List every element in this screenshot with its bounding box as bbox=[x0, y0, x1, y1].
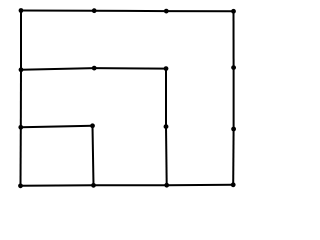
edge B2-B3 (second row right) bbox=[94, 67, 166, 70]
edge B4-C4 (right column middle) bbox=[233, 68, 235, 129]
node A1 bbox=[19, 8, 24, 13]
node C2 bbox=[90, 123, 95, 128]
node C3 bbox=[164, 124, 169, 129]
node D4 bbox=[231, 182, 236, 187]
node B2 bbox=[92, 66, 97, 71]
node B3 bbox=[164, 66, 169, 71]
node D3 bbox=[164, 183, 169, 188]
edge B3-C3 (inner column upper) bbox=[165, 69, 167, 127]
node A2 bbox=[92, 8, 97, 13]
edge A2-A3 (top row middle) bbox=[94, 10, 166, 12]
edge D1-D2 (bottom row left) bbox=[21, 184, 94, 187]
edge D3-D4 (bottom row right) bbox=[167, 184, 234, 186]
edge C2-D2 (small box right side) bbox=[93, 126, 94, 186]
edge C1-C2 (small box top) bbox=[21, 126, 93, 128]
node A3 bbox=[164, 9, 169, 14]
node D2 bbox=[91, 183, 96, 188]
edge A1-A2 (top row left) bbox=[21, 10, 94, 12]
edge C4-D4 (right column lower) bbox=[232, 129, 234, 185]
edge B1-C1 (left column middle) bbox=[20, 70, 22, 128]
node B4 bbox=[231, 65, 236, 70]
node C1 bbox=[18, 125, 23, 130]
edge A1-B1 (left column upper) bbox=[20, 11, 22, 70]
edge D2-D3 (bottom row middle) bbox=[94, 184, 167, 186]
edge A3-A4 (top row right) bbox=[166, 10, 233, 12]
node C4 bbox=[231, 127, 236, 132]
edge C3-D3 (inner column lower) bbox=[165, 127, 168, 186]
edge A4-B4 (right column upper) bbox=[233, 11, 235, 67]
node A4 bbox=[231, 9, 236, 14]
node B1 bbox=[19, 67, 24, 72]
edge B1-B2 (second row left) bbox=[21, 68, 94, 70]
edge C1-D1 (left column lower) bbox=[20, 127, 22, 186]
node D1 bbox=[18, 183, 23, 188]
